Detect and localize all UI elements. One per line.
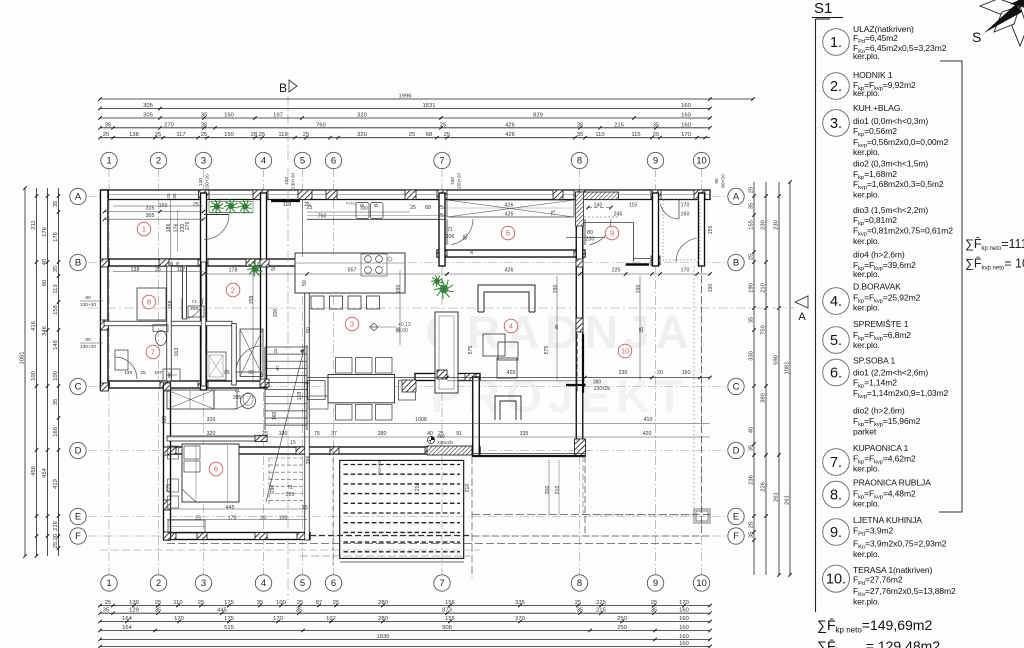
svg-text:dio1 (0,0m<h<0,3m): dio1 (0,0m<h<0,3m) — [853, 116, 928, 126]
svg-text:230: 230 — [774, 220, 780, 230]
svg-text:25: 25 — [105, 600, 111, 606]
svg-text:5: 5 — [300, 156, 305, 167]
svg-text:35: 35 — [577, 132, 583, 138]
svg-text:168: 168 — [53, 427, 59, 437]
svg-text:190: 190 — [749, 283, 755, 293]
svg-text:3: 3 — [201, 578, 206, 589]
svg-text:175: 175 — [224, 616, 234, 622]
svg-text:2.: 2. — [830, 79, 842, 95]
svg-text:SPREMIŠTE 1: SPREMIŠTE 1 — [853, 319, 909, 329]
svg-text:25: 25 — [103, 132, 109, 138]
svg-text:110: 110 — [595, 132, 604, 138]
svg-text:7: 7 — [151, 348, 155, 357]
svg-text:226: 226 — [761, 482, 767, 492]
svg-text:50: 50 — [306, 327, 312, 333]
svg-text:346: 346 — [42, 326, 48, 336]
svg-text:190: 190 — [708, 284, 714, 293]
svg-text:6: 6 — [331, 156, 336, 167]
svg-text:25: 25 — [140, 370, 146, 376]
svg-text:445: 445 — [217, 608, 227, 614]
svg-text:4: 4 — [261, 578, 266, 589]
svg-text:210: 210 — [761, 283, 767, 293]
svg-text:9: 9 — [653, 578, 658, 589]
svg-text:GRADNJA: GRADNJA — [425, 306, 694, 358]
svg-text:296: 296 — [306, 456, 312, 465]
svg-text:160: 160 — [681, 113, 691, 119]
svg-text:515: 515 — [224, 625, 234, 631]
svg-text:164: 164 — [122, 616, 132, 622]
svg-text:117: 117 — [177, 267, 185, 273]
svg-text:215: 215 — [614, 122, 624, 128]
svg-text:186: 186 — [166, 224, 172, 233]
svg-text:9: 9 — [610, 229, 614, 238]
svg-text:1081: 1081 — [20, 352, 26, 365]
svg-text:ker.plo.: ker.plo. — [853, 499, 880, 509]
svg-text:170: 170 — [174, 616, 184, 622]
svg-text:335: 335 — [520, 431, 529, 437]
svg-text:25: 25 — [155, 132, 161, 138]
svg-text:170: 170 — [681, 203, 690, 209]
svg-text:236: 236 — [749, 475, 755, 485]
svg-text:F: F — [75, 531, 81, 542]
svg-text:280: 280 — [378, 431, 387, 437]
svg-text:35: 35 — [554, 324, 560, 330]
svg-text:3.: 3. — [830, 116, 842, 132]
svg-text:168: 168 — [162, 416, 168, 425]
svg-text:25: 25 — [444, 132, 450, 138]
svg-text:35: 35 — [749, 203, 755, 209]
svg-text:35: 35 — [201, 122, 207, 128]
svg-text:dio3 (1,5m<h<2,2m): dio3 (1,5m<h<2,2m) — [853, 205, 928, 215]
svg-text:dio2 (0,3m<h<1,5m): dio2 (0,3m<h<1,5m) — [853, 159, 928, 169]
svg-text:35: 35 — [260, 516, 266, 522]
svg-text:25: 25 — [155, 600, 161, 606]
svg-text:25: 25 — [575, 600, 581, 606]
svg-text:A: A — [798, 311, 806, 323]
svg-text:420: 420 — [643, 431, 652, 437]
svg-text:1: 1 — [142, 225, 146, 234]
svg-text:8.: 8. — [830, 488, 842, 504]
svg-text:25: 25 — [201, 132, 207, 138]
svg-text:15: 15 — [302, 505, 308, 511]
svg-text:750: 750 — [761, 325, 767, 335]
svg-text:280: 280 — [378, 616, 388, 622]
svg-text:25: 25 — [193, 202, 199, 208]
svg-text:ker.plo.: ker.plo. — [853, 340, 880, 350]
svg-text:160: 160 — [681, 122, 691, 128]
svg-text:215: 215 — [596, 608, 606, 614]
svg-text:80: 80 — [85, 295, 91, 301]
svg-text:60: 60 — [248, 370, 254, 376]
svg-text:190: 190 — [636, 285, 642, 294]
svg-text:C: C — [733, 382, 740, 393]
svg-text:426: 426 — [505, 268, 514, 274]
svg-text:100: 100 — [53, 371, 59, 381]
svg-text:170: 170 — [681, 132, 691, 138]
svg-text:760: 760 — [318, 214, 327, 220]
svg-text:150: 150 — [450, 177, 456, 185]
svg-text:35: 35 — [257, 600, 263, 606]
svg-text:2: 2 — [156, 156, 161, 167]
svg-text:163: 163 — [174, 348, 180, 357]
svg-text:35: 35 — [172, 193, 177, 199]
svg-text:100: 100 — [31, 371, 37, 381]
svg-text:25: 25 — [262, 431, 268, 437]
svg-text:S: S — [972, 29, 981, 45]
svg-text:25: 25 — [307, 205, 313, 211]
svg-text:25: 25 — [653, 132, 659, 138]
svg-text:280: 280 — [378, 600, 388, 606]
svg-text:176: 176 — [174, 224, 180, 233]
svg-text:95: 95 — [714, 178, 720, 184]
svg-text:35: 35 — [577, 122, 583, 128]
svg-text:426: 426 — [505, 212, 514, 218]
svg-text:40: 40 — [42, 259, 48, 265]
svg-text:210: 210 — [555, 486, 561, 495]
svg-text:140: 140 — [594, 203, 603, 209]
svg-text:4.: 4. — [830, 294, 842, 310]
svg-text:87: 87 — [275, 365, 280, 371]
svg-text:410: 410 — [644, 417, 653, 423]
svg-text:A: A — [733, 192, 740, 203]
svg-text:275: 275 — [166, 484, 172, 493]
svg-text:HODNIK 1: HODNIK 1 — [853, 70, 893, 80]
svg-text:115: 115 — [631, 132, 640, 138]
svg-text:40: 40 — [469, 249, 475, 255]
svg-text:456: 456 — [31, 466, 37, 476]
svg-text:380: 380 — [761, 393, 767, 403]
svg-text:87: 87 — [316, 600, 322, 606]
svg-text:168: 168 — [272, 412, 278, 421]
svg-text:35: 35 — [103, 608, 109, 614]
svg-text:80+20: 80+20 — [721, 174, 727, 188]
svg-text:160: 160 — [681, 103, 691, 109]
svg-text:25,20: 25,20 — [53, 534, 59, 549]
svg-text:205: 205 — [233, 395, 242, 401]
svg-text:873: 873 — [442, 608, 452, 614]
svg-text:160: 160 — [681, 212, 690, 218]
svg-text:107: 107 — [154, 370, 162, 376]
svg-text:dio2 (h>2,6m): dio2 (h>2,6m) — [853, 406, 905, 416]
svg-text:10.: 10. — [826, 572, 846, 588]
svg-text:225: 225 — [596, 600, 606, 606]
svg-text:35: 35 — [396, 327, 402, 333]
svg-text:35: 35 — [577, 608, 583, 614]
svg-text:8: 8 — [577, 156, 582, 167]
svg-text:170: 170 — [679, 600, 689, 606]
svg-text:206: 206 — [446, 234, 455, 240]
svg-text:35: 35 — [749, 317, 755, 323]
svg-text:315: 315 — [146, 206, 155, 212]
svg-text:35: 35 — [653, 122, 659, 128]
svg-text:D.BORAVAK: D.BORAVAK — [853, 282, 901, 292]
svg-text:557: 557 — [348, 268, 357, 274]
svg-text:160: 160 — [679, 608, 689, 614]
svg-text:419: 419 — [53, 479, 59, 489]
svg-text:829: 829 — [533, 113, 543, 119]
svg-text:ker.plo.: ker.plo. — [853, 190, 880, 200]
svg-text:211: 211 — [31, 220, 37, 229]
svg-text:117: 117 — [176, 132, 185, 138]
svg-text:75: 75 — [314, 431, 320, 437]
svg-text:ker.plo.: ker.plo. — [853, 596, 880, 606]
svg-text:160: 160 — [679, 616, 689, 622]
svg-text:130: 130 — [198, 178, 203, 186]
svg-text:155: 155 — [708, 226, 714, 235]
svg-text:158: 158 — [168, 301, 174, 310]
svg-text:20: 20 — [657, 370, 663, 376]
svg-text:PRAONICA RUBLJA: PRAONICA RUBLJA — [853, 478, 931, 488]
svg-text:305: 305 — [143, 103, 153, 109]
svg-text:10: 10 — [696, 156, 707, 167]
svg-text:100: 100 — [276, 600, 286, 606]
svg-text:Perilica: Perilica — [346, 202, 357, 206]
svg-text:25: 25 — [175, 261, 180, 267]
svg-text:71: 71 — [234, 388, 240, 394]
svg-text:D: D — [75, 446, 82, 457]
svg-text:35: 35 — [296, 608, 302, 614]
svg-text:25: 25 — [155, 267, 161, 273]
svg-text:230: 230 — [761, 220, 767, 230]
svg-text:80: 80 — [42, 280, 48, 286]
svg-text:91: 91 — [456, 431, 462, 437]
svg-text:B: B — [75, 258, 81, 269]
svg-text:ker.plo.: ker.plo. — [853, 303, 880, 313]
svg-text:40: 40 — [749, 427, 755, 433]
svg-text:35: 35 — [53, 399, 59, 405]
svg-text:113: 113 — [53, 284, 59, 293]
svg-text:1531: 1531 — [423, 103, 436, 109]
svg-text:2: 2 — [231, 286, 235, 295]
svg-text:B: B — [279, 81, 287, 95]
svg-text:1008: 1008 — [415, 417, 427, 423]
svg-text:245: 245 — [614, 212, 623, 218]
svg-text:575: 575 — [544, 346, 550, 355]
svg-text:25: 25 — [651, 600, 657, 606]
svg-text:426: 426 — [505, 203, 514, 209]
svg-text:85: 85 — [168, 372, 174, 378]
svg-text:160: 160 — [679, 634, 689, 640]
svg-text:5: 5 — [506, 229, 510, 238]
svg-text:908: 908 — [442, 625, 452, 631]
svg-text:320: 320 — [357, 113, 367, 119]
svg-text:160: 160 — [679, 641, 689, 647]
svg-text:230+20: 230+20 — [205, 174, 210, 190]
svg-text:130+20: 130+20 — [80, 344, 96, 350]
svg-text:320: 320 — [207, 431, 216, 437]
svg-text:170: 170 — [681, 268, 690, 274]
svg-text:35: 35 — [749, 445, 755, 451]
svg-text:ker.plo.: ker.plo. — [853, 236, 880, 246]
svg-text:68: 68 — [425, 205, 431, 211]
svg-text:9: 9 — [653, 156, 658, 167]
svg-text:F: F — [733, 531, 739, 542]
svg-text:155: 155 — [445, 616, 455, 622]
svg-text:1836: 1836 — [377, 634, 390, 640]
svg-text:250: 250 — [617, 616, 627, 622]
svg-text:261: 261 — [774, 492, 780, 502]
svg-text:330: 330 — [360, 206, 368, 212]
svg-text:LJETNA KUHINJA: LJETNA KUHINJA — [853, 515, 922, 525]
svg-text:230+20: 230+20 — [291, 173, 297, 189]
svg-text:115: 115 — [629, 203, 637, 209]
svg-text:575: 575 — [468, 346, 474, 355]
svg-text:50: 50 — [302, 280, 308, 286]
svg-text:100: 100 — [279, 516, 288, 522]
svg-text:200: 200 — [273, 309, 279, 318]
svg-text:760: 760 — [316, 122, 326, 128]
svg-text:160: 160 — [682, 370, 691, 376]
svg-text:590: 590 — [774, 355, 780, 365]
svg-text:25: 25 — [749, 254, 755, 260]
svg-text:10: 10 — [621, 347, 629, 356]
svg-text:TERASA 1(natkriven): TERASA 1(natkriven) — [853, 565, 933, 575]
svg-text:230x2b: 230x2b — [594, 386, 611, 392]
svg-text:119: 119 — [283, 202, 291, 208]
svg-text:3: 3 — [350, 320, 354, 329]
svg-text:1.: 1. — [830, 35, 842, 51]
svg-text:205: 205 — [190, 306, 198, 312]
svg-text:25: 25 — [273, 348, 278, 354]
svg-text:4: 4 — [509, 322, 513, 331]
svg-text:250+20: 250+20 — [457, 173, 463, 189]
svg-text:D: D — [733, 446, 740, 457]
svg-text:E: E — [733, 512, 739, 523]
svg-text:25: 25 — [198, 600, 204, 606]
svg-text:176: 176 — [53, 232, 59, 242]
svg-text:454: 454 — [42, 467, 48, 477]
svg-text:6: 6 — [214, 465, 218, 474]
svg-text:35: 35 — [201, 113, 207, 119]
svg-text:25: 25 — [410, 205, 416, 211]
svg-text:210: 210 — [465, 484, 471, 493]
svg-text:156: 156 — [445, 600, 455, 606]
svg-text:68: 68 — [426, 132, 432, 138]
svg-text:25: 25 — [297, 600, 303, 606]
svg-text:168: 168 — [297, 392, 303, 401]
svg-text:250+20: 250+20 — [377, 460, 382, 475]
svg-text:25: 25 — [438, 205, 444, 211]
svg-text:71: 71 — [447, 227, 453, 233]
svg-text:139: 139 — [124, 370, 132, 376]
svg-text:∑F̄kp neto=149,69m2: ∑F̄kp neto=149,69m2 — [817, 617, 932, 635]
svg-text:445: 445 — [226, 505, 235, 511]
svg-text:176: 176 — [42, 227, 48, 237]
svg-text:160: 160 — [679, 625, 689, 631]
svg-text:380: 380 — [437, 434, 445, 440]
svg-text:330: 330 — [749, 351, 755, 361]
svg-text:S1: S1 — [814, 0, 832, 17]
svg-text:2: 2 — [156, 578, 161, 589]
svg-text:1081: 1081 — [785, 362, 791, 375]
svg-text:ker.plo.: ker.plo. — [853, 51, 880, 61]
svg-text:35: 35 — [53, 201, 59, 207]
svg-text:7: 7 — [439, 578, 444, 589]
svg-text:ker.plo.: ker.plo. — [853, 88, 880, 98]
svg-text:71: 71 — [287, 485, 293, 491]
svg-text:C: C — [75, 382, 82, 393]
svg-text:210: 210 — [415, 483, 421, 492]
svg-text:175: 175 — [224, 600, 234, 606]
svg-text:71: 71 — [191, 299, 197, 305]
svg-text:380: 380 — [593, 380, 602, 386]
svg-text:320: 320 — [357, 132, 367, 138]
svg-text:4: 4 — [261, 156, 266, 167]
svg-text:7.: 7. — [830, 455, 842, 471]
svg-text:dio1 (2,2m<h<2,6m): dio1 (2,2m<h<2,6m) — [853, 368, 928, 378]
svg-text:335: 335 — [515, 600, 525, 606]
svg-text:216: 216 — [53, 521, 59, 531]
svg-text:1: 1 — [106, 156, 111, 167]
svg-text:130+20: 130+20 — [80, 302, 96, 308]
svg-text:75: 75 — [551, 210, 557, 216]
svg-text:197: 197 — [273, 113, 283, 119]
svg-text:190: 190 — [553, 285, 559, 294]
svg-text:261: 261 — [785, 495, 791, 505]
svg-text:SP.SOBA 1: SP.SOBA 1 — [853, 356, 896, 366]
svg-text:170: 170 — [273, 616, 283, 622]
svg-text:6: 6 — [331, 578, 336, 589]
svg-text:ker.plo.: ker.plo. — [853, 549, 880, 559]
svg-text:178: 178 — [229, 268, 238, 274]
svg-text:230: 230 — [586, 237, 595, 243]
svg-text:25: 25 — [195, 516, 201, 522]
svg-text:426: 426 — [507, 370, 516, 376]
svg-text:85: 85 — [224, 370, 230, 376]
svg-text:150: 150 — [224, 113, 234, 119]
svg-text:parket: parket — [853, 427, 877, 437]
svg-text:139: 139 — [129, 600, 139, 606]
svg-text:∑F̄kvp neto= 129,48m2: ∑F̄kvp neto= 129,48m2 — [817, 638, 940, 648]
svg-text:190: 190 — [396, 285, 402, 294]
svg-text:25: 25 — [749, 187, 755, 193]
svg-text:25: 25 — [749, 522, 755, 528]
svg-text:9.: 9. — [830, 525, 842, 541]
svg-text:225: 225 — [612, 268, 621, 274]
svg-text:8: 8 — [577, 578, 582, 589]
svg-text:370: 370 — [515, 616, 525, 622]
svg-text:129: 129 — [129, 608, 139, 614]
svg-text:230: 230 — [180, 224, 186, 233]
svg-text:10: 10 — [696, 578, 707, 589]
svg-text:1996: 1996 — [399, 94, 412, 100]
svg-text:200: 200 — [545, 486, 551, 495]
svg-text:35: 35 — [651, 608, 657, 614]
svg-text:35: 35 — [155, 608, 161, 614]
svg-text:37: 37 — [331, 431, 337, 437]
svg-text:150: 150 — [224, 132, 234, 138]
svg-text:5: 5 — [300, 578, 305, 589]
svg-text:80: 80 — [85, 337, 91, 343]
svg-text:305: 305 — [146, 213, 155, 219]
svg-text:35: 35 — [105, 122, 111, 128]
svg-text:85: 85 — [463, 234, 469, 240]
svg-text:416: 416 — [31, 321, 37, 331]
svg-text:230: 230 — [619, 370, 628, 376]
svg-text:50: 50 — [271, 265, 277, 271]
svg-text:230x2b: 230x2b — [437, 440, 453, 446]
svg-text:6.: 6. — [830, 366, 842, 382]
svg-text:80: 80 — [587, 230, 593, 236]
svg-text:158: 158 — [53, 305, 59, 315]
svg-text:25: 25 — [440, 122, 446, 128]
svg-text:ker.plo.: ker.plo. — [853, 147, 880, 157]
svg-text:102: 102 — [326, 616, 336, 622]
svg-text:28,25: 28,25 — [251, 132, 266, 138]
svg-text:155: 155 — [749, 220, 755, 230]
svg-text:138: 138 — [129, 132, 139, 138]
svg-text:270: 270 — [164, 122, 174, 128]
